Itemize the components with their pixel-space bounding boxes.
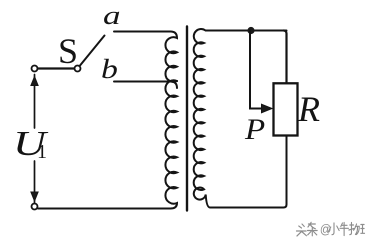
terminal bottom-left xyxy=(32,204,38,210)
label S xyxy=(58,30,78,72)
terminal top-left xyxy=(32,66,38,72)
wire terminal to switch pivot xyxy=(38,67,74,69)
wiper wire from junction xyxy=(250,31,263,109)
label b xyxy=(101,54,118,85)
wiper arrowhead xyxy=(262,104,273,113)
secondary coil with top cap and bottom cap xyxy=(194,29,287,207)
U1 voltage arrow line upper xyxy=(34,75,36,129)
switch S blade xyxy=(80,36,104,66)
primary coil lower bumps xyxy=(38,80,177,208)
U1 arrowhead up xyxy=(31,77,38,86)
U1 voltage arrow line lower xyxy=(34,161,36,203)
svg-text:@: @ xyxy=(320,222,332,237)
wire a (tap a to primary top) + primary coil upper bumps xyxy=(114,32,177,82)
wire b (tap b) xyxy=(114,82,177,89)
label U1 xyxy=(13,124,46,164)
label P xyxy=(245,113,265,147)
resistor R box xyxy=(274,83,298,135)
U1 arrowhead down xyxy=(31,192,38,201)
transformer core xyxy=(186,27,188,211)
junction dot xyxy=(247,27,254,34)
right branch: top corner down to resistor xyxy=(284,31,287,83)
switch pivot xyxy=(75,66,81,72)
watermark 头条@小牛物理 (drawn strokes) xyxy=(296,222,364,237)
label R xyxy=(298,88,320,130)
label a xyxy=(103,1,121,31)
